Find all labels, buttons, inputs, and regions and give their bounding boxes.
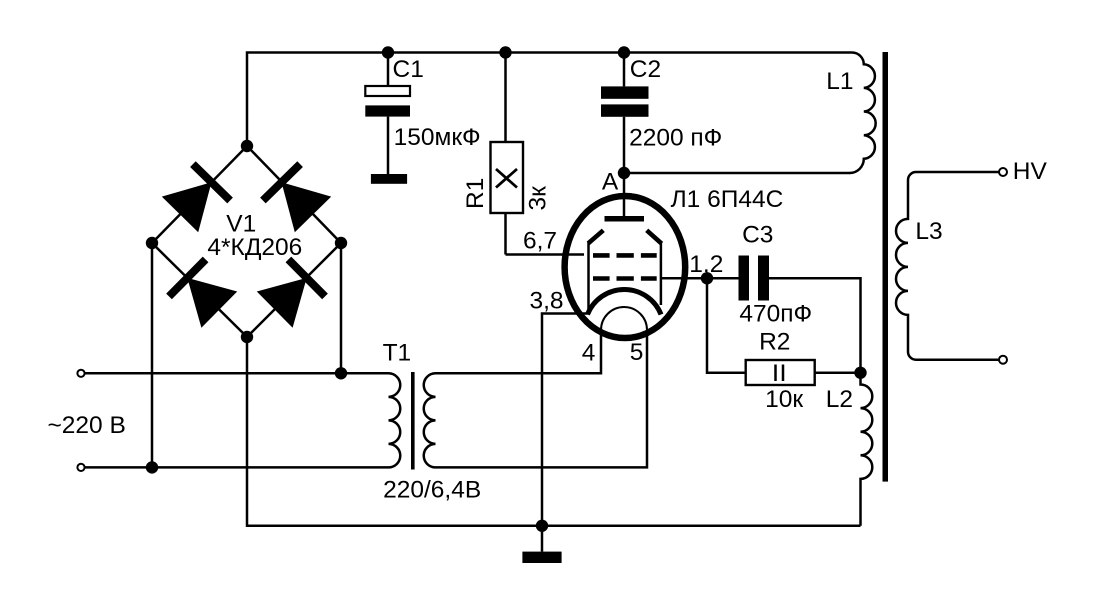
- transformer T1 core: [411, 372, 415, 470]
- svg-text:10к: 10к: [765, 386, 803, 413]
- svg-text:Л1 6П44С: Л1 6П44С: [671, 186, 784, 213]
- diode VD2 (right-top arm, anode right node, cathode top node): [263, 164, 331, 232]
- inductor L1 (feedback winding): [850, 53, 876, 174]
- junction bridge right / top AC input: [335, 367, 347, 379]
- transformer T1 secondary winding: [424, 373, 436, 467]
- capacitor C3: [707, 256, 861, 373]
- diode VD3 (left-bottom arm, anode bottom node, cathode left node): [169, 259, 237, 327]
- svg-text:R1: R1: [462, 178, 489, 209]
- transformer T1 primary winding: [389, 373, 401, 467]
- junction C1/top bus: [382, 46, 394, 58]
- diode VD4 (right-bottom arm, anode bottom node, cathode right node): [257, 259, 325, 327]
- transformer core (L1/L2/L3): [883, 52, 889, 482]
- wire AC input bottom to T1 primary: [85, 466, 389, 469]
- terminal HV return: [999, 356, 1007, 364]
- svg-text:HV: HV: [1013, 158, 1048, 185]
- ground (C1): [371, 174, 407, 184]
- wire top bus (+) from bridge top to L1: [247, 53, 852, 147]
- envelope: [565, 196, 686, 338]
- wire cathode lead (pins 3,8) to ground bus: [542, 314, 589, 526]
- svg-text:C1: C1: [393, 56, 424, 83]
- svg-text:~220 В: ~220 В: [48, 412, 126, 439]
- node bridge bottom: [241, 331, 253, 343]
- svg-text:L1: L1: [826, 68, 853, 95]
- beam plate right: [647, 230, 662, 243]
- node pins 1,2: [701, 272, 713, 284]
- wire grid 2 lead (pins 1,2): [662, 277, 708, 280]
- grid 2 dashes: [593, 276, 657, 281]
- heater arc: [601, 307, 647, 330]
- resistor R2: [707, 278, 861, 385]
- beam plate left: [588, 230, 603, 243]
- node bridge top: [241, 140, 253, 152]
- ground (main): [522, 526, 561, 563]
- svg-text:3к: 3к: [525, 186, 552, 211]
- junction ground bus: [536, 520, 548, 532]
- node A (anode): [618, 167, 630, 179]
- resistor R1 (fusible, 3к): [491, 53, 524, 255]
- node bridge right: [335, 237, 347, 249]
- junction R1/top bus: [499, 46, 511, 58]
- inductor L3 (HV secondary winding): [896, 172, 999, 360]
- svg-text:470пФ: 470пФ: [739, 301, 812, 328]
- svg-text:R2: R2: [759, 329, 790, 356]
- wire grid 1 lead (pins 6,7) from R1: [506, 253, 585, 256]
- tube Л1 6П44С: [565, 173, 686, 338]
- terminal AC input top: [77, 370, 84, 377]
- svg-text:A: A: [602, 169, 619, 196]
- terminal AC input bottom: [77, 464, 84, 471]
- svg-text:5: 5: [630, 339, 644, 366]
- svg-text:4: 4: [582, 339, 596, 366]
- node bridge left: [146, 237, 158, 249]
- svg-text:6,7: 6,7: [523, 227, 557, 254]
- junction C2/top bus: [618, 46, 630, 58]
- capacitor C2: [601, 53, 649, 174]
- terminal HV: [999, 168, 1007, 176]
- wire node A to L1 bottom: [624, 172, 850, 175]
- wire AC input top to T1 primary: [85, 372, 389, 375]
- anode lead wire: [623, 173, 626, 219]
- svg-text:3,8: 3,8: [530, 288, 564, 315]
- wire bridge bottom node to ground bus: [247, 337, 861, 526]
- wire T1 secondary top to tube pin 4: [436, 330, 602, 373]
- wire T1 secondary bottom to tube pin 5: [436, 330, 648, 467]
- anode plate: [605, 216, 645, 222]
- diode bridge V1 arm wires: [152, 146, 341, 337]
- node R2/C3/L2: [854, 367, 866, 379]
- svg-text:2200 пФ: 2200 пФ: [629, 125, 722, 152]
- cathode arc: [588, 289, 662, 314]
- junction bridge left / bottom AC input: [146, 461, 158, 473]
- svg-text:150мкФ: 150мкФ: [394, 124, 481, 151]
- wire bridge left node down to AC input: [151, 243, 154, 467]
- svg-text:L3: L3: [915, 218, 942, 245]
- svg-text:L2: L2: [826, 386, 853, 413]
- capacitor C1 (electrolytic): [365, 53, 410, 175]
- svg-text:220/6,4В: 220/6,4В: [383, 476, 481, 503]
- svg-text:T1: T1: [383, 340, 412, 367]
- svg-text:C3: C3: [742, 221, 773, 248]
- svg-text:4*КД206: 4*КД206: [207, 234, 302, 261]
- inductor L2 (grid winding): [861, 373, 873, 526]
- diode VD1 (left-top arm, anode left node, cathode top node): [162, 164, 230, 232]
- wire bridge right node down to AC input: [340, 243, 343, 373]
- grid 1 dashes: [593, 253, 657, 258]
- svg-text:C2: C2: [630, 56, 661, 83]
